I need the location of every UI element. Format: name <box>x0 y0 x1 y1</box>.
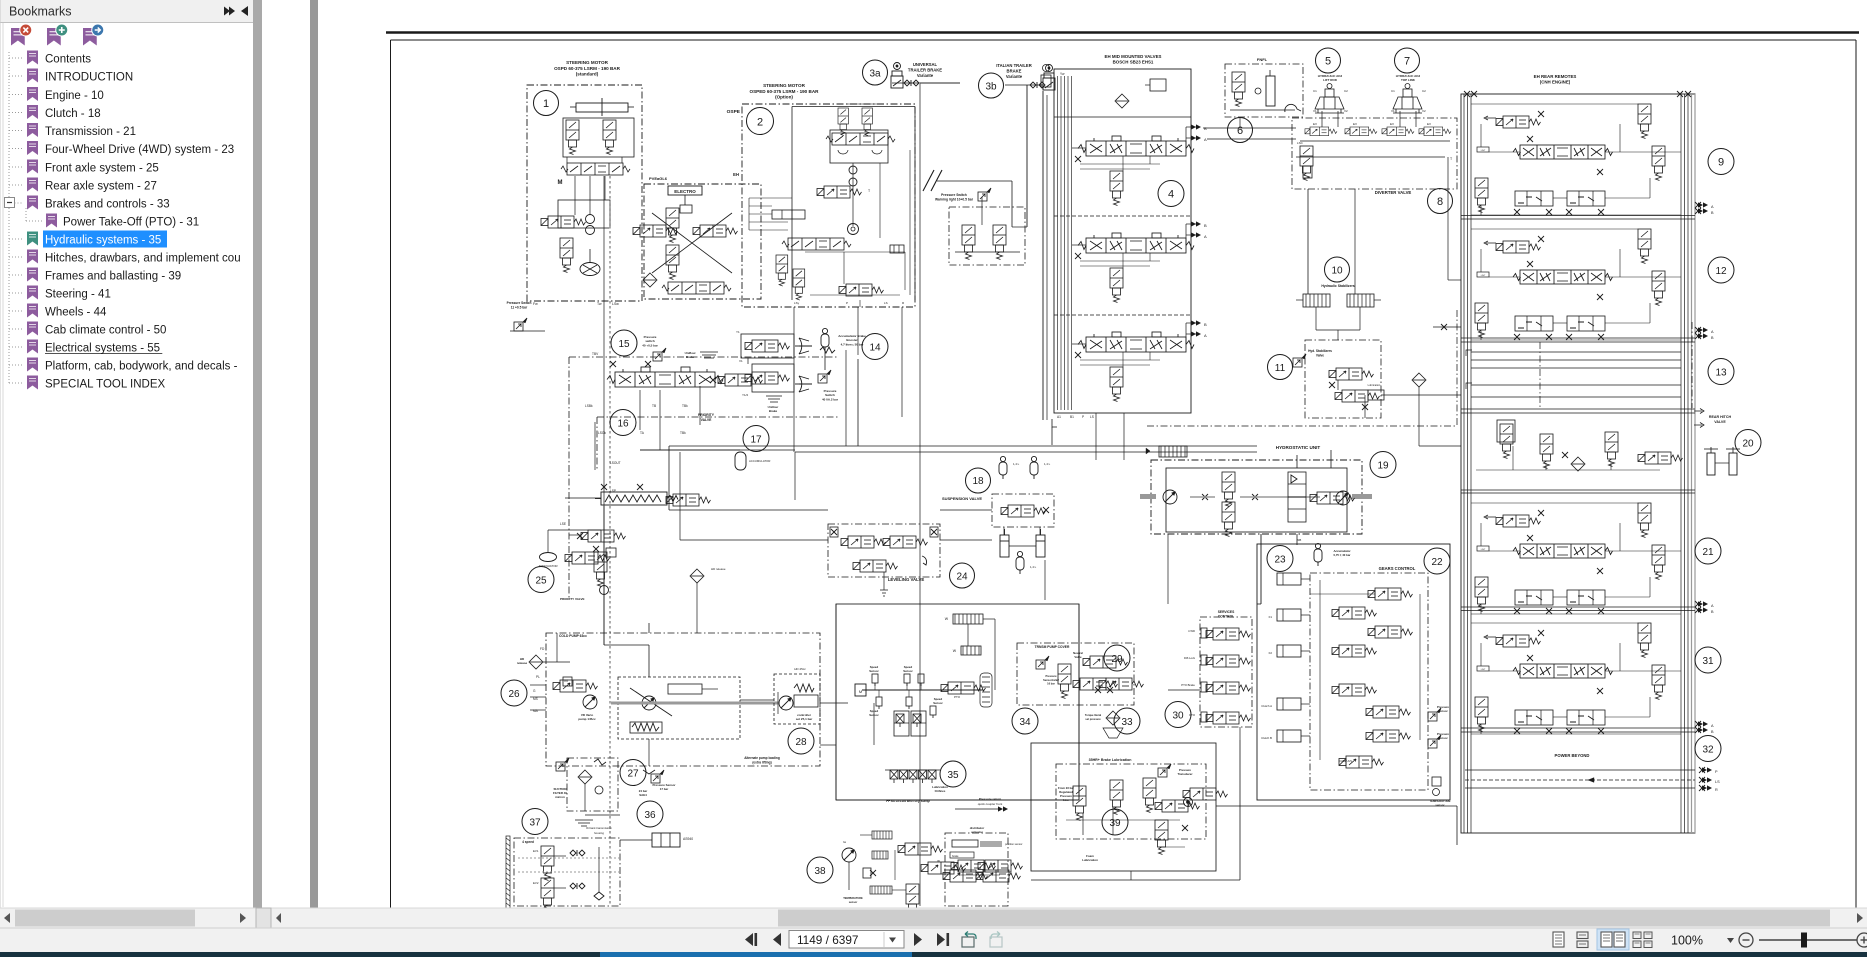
svg-text:MB: MB <box>1297 538 1301 542</box>
svg-text:Sensor: Sensor <box>1438 709 1448 713</box>
svg-text:COLD PUMP 63cc: COLD PUMP 63cc <box>559 634 587 638</box>
svg-text:EH MID MOUNTED VALVES: EH MID MOUNTED VALVES <box>1105 54 1162 59</box>
svg-text:DUMP A/S: DUMP A/S <box>1339 759 1352 763</box>
svg-text:35HR+ Brake Lubrication: 35HR+ Brake Lubrication <box>1089 758 1132 762</box>
svg-text:16 bar: 16 bar <box>1047 682 1055 686</box>
svg-text:SPECIAL TOOL INDEX: SPECIAL TOOL INDEX <box>45 379 165 391</box>
svg-text:A: A <box>1204 234 1207 239</box>
svg-text:Hitches, drawbars, and impleme: Hitches, drawbars, and implement cou <box>45 253 241 265</box>
svg-text:39: 39 <box>1109 818 1121 829</box>
svg-text:EV: EV <box>1353 122 1357 126</box>
svg-text:Sensor: Sensor <box>1438 736 1448 740</box>
svg-text:Pressure: Pressure <box>1045 674 1057 678</box>
svg-text:Yw: Yw <box>1060 72 1065 76</box>
svg-text:DIVERTER VALVE: DIVERTER VALVE <box>1375 190 1412 195</box>
svg-text:F1: F1 <box>1269 615 1273 619</box>
svg-text:Sensor: Sensor <box>903 669 913 673</box>
svg-text:C1: C1 <box>1313 89 1317 93</box>
svg-text:Sensor: Sensor <box>869 669 879 673</box>
svg-text:1,4 L: 1,4 L <box>1044 462 1051 466</box>
svg-text:12: 12 <box>1715 266 1727 277</box>
svg-text:PTO: PTO <box>1189 713 1196 717</box>
svg-text:ACCUMULATOR: ACCUMULATOR <box>749 459 770 463</box>
svg-text:Alternate pump loading: Alternate pump loading <box>744 756 780 760</box>
svg-text:30: 30 <box>1172 711 1184 722</box>
svg-text:V2: V2 <box>1422 109 1426 113</box>
svg-text:LSOk: LSOk <box>598 431 606 435</box>
svg-text:14: 14 <box>869 343 881 354</box>
svg-text:LSOUT: LSOUT <box>610 461 621 465</box>
svg-text:2: 2 <box>757 117 763 129</box>
svg-text:Steering - 41: Steering - 41 <box>45 289 111 301</box>
svg-text:B: B <box>1204 223 1207 228</box>
svg-text:EV2: EV2 <box>533 881 539 885</box>
svg-text:Tw: Tw <box>597 302 602 306</box>
svg-text:A1: A1 <box>1057 415 1061 419</box>
svg-text:EV: EV <box>1427 122 1431 126</box>
svg-text:B1: B1 <box>1070 415 1074 419</box>
svg-text:Sensor: Sensor <box>933 701 943 705</box>
svg-text:Hyd. Stabilizers: Hyd. Stabilizers <box>1308 349 1332 353</box>
svg-text:INTRODUCTION: INTRODUCTION <box>45 72 133 84</box>
svg-text:21: 21 <box>1702 547 1714 558</box>
svg-text:4 WD: 4 WD <box>1188 629 1195 633</box>
svg-text:Variante: Variante <box>917 73 934 78</box>
svg-text:FNFL: FNFL <box>1257 57 1268 62</box>
svg-text:PRIORITY: PRIORITY <box>698 413 715 417</box>
svg-text:38: 38 <box>814 866 826 877</box>
svg-text:Power Take-Off (PTO) - 31: Power Take-Off (PTO) - 31 <box>63 217 199 229</box>
svg-text:HD release: HD release <box>711 567 726 571</box>
svg-text:pump 145cc: pump 145cc <box>578 717 596 721</box>
svg-text:Fw: Fw <box>533 302 538 306</box>
svg-text:F2: F2 <box>1269 651 1273 655</box>
svg-text:LS: LS <box>884 301 888 305</box>
svg-text:Pressure Switch: Pressure Switch <box>507 301 532 305</box>
svg-text:16: 16 <box>617 419 629 430</box>
svg-text:24: 24 <box>956 572 968 583</box>
svg-text:Y1: Y1 <box>736 330 740 334</box>
svg-text:sensor: sensor <box>849 900 858 904</box>
svg-text:Lubrication: Lubrication <box>1082 858 1098 862</box>
svg-text:LIFT ROD: LIFT ROD <box>1323 78 1338 82</box>
svg-text:LIST: LIST <box>1481 669 1486 671</box>
svg-text:13: 13 <box>1715 368 1727 379</box>
svg-text:SAE4: SAE4 <box>639 793 647 797</box>
svg-text:POWER BEYOND: POWER BEYOND <box>1555 753 1590 758</box>
svg-text:EH: EH <box>733 172 739 177</box>
svg-text:LSBk: LSBk <box>585 404 593 408</box>
svg-text:0,75 l; 40 bar: 0,75 l; 40 bar <box>1334 553 1352 557</box>
svg-text:11 +0.5 bar: 11 +0.5 bar <box>511 305 528 309</box>
svg-text:Bookmarks: Bookmarks <box>9 5 72 19</box>
svg-text:Torque literal: Torque literal <box>1085 713 1102 717</box>
svg-text:Cab climate control - 50: Cab climate control - 50 <box>45 325 166 337</box>
svg-text:Wheels - 44: Wheels - 44 <box>45 307 107 319</box>
svg-text:ELECTRO: ELECTRO <box>674 189 696 194</box>
svg-text:P: P <box>846 301 848 305</box>
svg-text:TRNSM PUMP COVER: TRNSM PUMP COVER <box>1035 645 1070 649</box>
svg-text:brake: brake <box>952 854 959 858</box>
svg-text:Transmission - 21: Transmission - 21 <box>45 126 136 138</box>
svg-text:EV: EV <box>1313 122 1317 126</box>
svg-text:LSE: LSE <box>560 522 566 526</box>
svg-text:35: 35 <box>947 770 959 781</box>
svg-text:position sensor: position sensor <box>1005 842 1023 846</box>
svg-text:EH REAR REMOTES: EH REAR REMOTES <box>1534 74 1577 79</box>
svg-text:TBk: TBk <box>682 404 688 408</box>
svg-text:PVEaGL6: PVEaGL6 <box>649 176 668 181</box>
svg-text:Valve: Valve <box>1074 655 1082 659</box>
svg-text:AS940: AS940 <box>683 837 693 841</box>
svg-text:Transducer: Transducer <box>1177 772 1193 776</box>
svg-text:3b: 3b <box>985 82 997 93</box>
svg-text:BRAKE: BRAKE <box>1007 68 1022 73</box>
svg-text:housing: housing <box>594 831 604 835</box>
svg-text:sensor: sensor <box>1435 803 1445 807</box>
svg-text:actuator: actuator <box>971 830 983 834</box>
svg-text:LIST: LIST <box>1481 549 1486 551</box>
svg-text:W: W <box>937 859 940 863</box>
svg-text:Valve: Valve <box>1316 353 1324 357</box>
svg-text:8: 8 <box>1437 196 1443 208</box>
svg-text:HYDROSTATIC UNIT: HYDROSTATIC UNIT <box>1276 445 1321 450</box>
svg-text:quick coupler front: quick coupler front <box>978 802 1003 806</box>
svg-text:TEMPERATURE: TEMPERATURE <box>843 896 863 900</box>
svg-text:Y1/2: Y1/2 <box>742 393 749 397</box>
svg-text:Brakes and controls - 33: Brakes and controls - 33 <box>45 199 170 211</box>
svg-text:PRIORITY VALVE: PRIORITY VALVE <box>560 597 585 601</box>
svg-text:EV1: EV1 <box>533 849 539 853</box>
svg-text:40 0A.2 bar: 40 0A.2 bar <box>822 397 839 401</box>
svg-text:Brake: Brake <box>769 409 778 413</box>
svg-text:UNIVERSAL: UNIVERSAL <box>913 62 938 67</box>
svg-text:REAR HITCH: REAR HITCH <box>1709 415 1732 419</box>
svg-text:A: A <box>1204 333 1207 338</box>
svg-text:C2: C2 <box>1422 89 1426 93</box>
svg-text:26: 26 <box>508 689 520 700</box>
svg-text:TBk: TBk <box>680 431 686 435</box>
svg-text:3a: 3a <box>869 69 881 80</box>
svg-text:1,4 L: 1,4 L <box>1013 462 1020 466</box>
svg-text:SERVICES: SERVICES <box>1218 610 1235 614</box>
svg-text:MS: MS <box>533 697 538 701</box>
svg-text:Sensor: Sensor <box>869 713 879 717</box>
svg-text:TBV: TBV <box>592 352 599 356</box>
svg-text:ATTENUATOR: ATTENUATOR <box>538 564 557 568</box>
svg-text:1,4 L: 1,4 L <box>1030 565 1037 569</box>
svg-text:(Option): (Option) <box>775 95 793 100</box>
svg-text:LIST: LIST <box>1481 275 1486 277</box>
svg-text:release: release <box>517 661 528 665</box>
svg-text:Rear axle system - 27: Rear axle system - 27 <box>45 181 157 193</box>
svg-text:GEARS CONTROL: GEARS CONTROL <box>1379 566 1416 571</box>
svg-text:Sensor/relief: Sensor/relief <box>1043 678 1059 682</box>
svg-text:set pressure: set pressure <box>1085 717 1101 721</box>
svg-text:M: M <box>564 678 567 683</box>
svg-text:Pressure Switch: Pressure Switch <box>941 193 967 197</box>
svg-text:Warning light 10+0.5 bar: Warning light 10+0.5 bar <box>935 198 974 202</box>
svg-text:4: 4 <box>1168 189 1174 201</box>
svg-text:17: 17 <box>750 435 762 446</box>
svg-text:(extra lifting): (extra lifting) <box>752 760 771 764</box>
svg-text:36: 36 <box>644 810 656 821</box>
svg-text:Clutch A: Clutch A <box>1261 704 1272 708</box>
svg-text:Hydraulic systems - 35: Hydraulic systems - 35 <box>45 235 161 247</box>
svg-text:V1: V1 <box>1313 109 1317 113</box>
svg-text:TOP LINK: TOP LINK <box>1401 78 1416 82</box>
svg-text:PTO: PTO <box>954 695 961 699</box>
svg-text:32: 32 <box>1702 745 1714 756</box>
svg-text:M: M <box>558 180 563 186</box>
svg-text:Hydraulic Stabilizers: Hydraulic Stabilizers <box>1321 284 1354 288</box>
svg-text:LSC: LSC <box>1297 141 1304 145</box>
svg-text:FD: FD <box>540 647 545 651</box>
svg-text:PL: PL <box>536 675 540 679</box>
svg-text:EV: EV <box>1390 122 1394 126</box>
svg-text:22: 22 <box>1431 557 1443 568</box>
svg-text:25: 25 <box>535 576 547 587</box>
svg-text:Lubrication: Lubrication <box>1368 383 1381 387</box>
svg-text:V1: V1 <box>1391 109 1395 113</box>
svg-text:100%: 100% <box>1671 934 1703 948</box>
svg-text:OSPE: OSPE <box>727 109 741 115</box>
svg-text:BOSCH SB23 EHS1: BOSCH SB23 EHS1 <box>1113 60 1154 65</box>
svg-text:(CNH ENGINE): (CNH ENGINE) <box>1540 80 1571 85</box>
svg-text:V1: V1 <box>739 359 743 363</box>
svg-text:Clutch B: Clutch B <box>1261 736 1272 740</box>
svg-text:SUSPENSION VALVE: SUSPENSION VALVE <box>942 496 982 501</box>
svg-text:R: R <box>1715 788 1718 792</box>
svg-text:9: 9 <box>1718 157 1724 169</box>
svg-text:(standard): (standard) <box>576 72 599 77</box>
svg-text:1: 1 <box>543 98 549 110</box>
svg-text:37: 37 <box>529 818 541 829</box>
svg-text:micron: micron <box>555 795 565 799</box>
svg-text:1149 / 6397: 1149 / 6397 <box>797 933 858 947</box>
svg-text:10: 10 <box>1331 266 1343 277</box>
svg-text:ITALIAN TRAILER: ITALIAN TRAILER <box>996 63 1032 68</box>
svg-text:Engine - 10: Engine - 10 <box>45 90 104 102</box>
svg-text:23: 23 <box>1274 555 1286 566</box>
svg-text:17 bar: 17 bar <box>660 787 669 791</box>
svg-text:Electrical systems - 55: Electrical systems - 55 <box>45 343 160 355</box>
svg-text:15: 15 <box>618 339 630 350</box>
svg-text:V2: V2 <box>1344 109 1348 113</box>
svg-text:19: 19 <box>1377 461 1389 472</box>
svg-text:Contents: Contents <box>45 54 91 66</box>
svg-text:40 +0,5 bar: 40 +0,5 bar <box>642 343 658 347</box>
svg-text:LSw: LSw <box>612 302 619 306</box>
svg-text:TRAILER BRAKE: TRAILER BRAKE <box>908 67 942 72</box>
svg-text:B: B <box>1204 126 1207 131</box>
svg-text:PTO Brake: PTO Brake <box>1181 683 1195 687</box>
svg-text:4,7 liters; 50 bar: 4,7 liters; 50 bar <box>841 342 865 346</box>
svg-text:LS: LS <box>1715 780 1720 784</box>
svg-text:Clutch - 18: Clutch - 18 <box>45 108 101 120</box>
svg-text:M: M <box>859 689 862 694</box>
svg-text:STEERING MOTOR: STEERING MOTOR <box>566 60 608 65</box>
svg-text:C2: C2 <box>1344 89 1348 93</box>
svg-text:P: P <box>1082 415 1084 419</box>
svg-text:OSPD 60-375 LSRM - 190 BAR: OSPD 60-375 LSRM - 190 BAR <box>554 66 621 71</box>
svg-text:LEVELING VALVE: LEVELING VALVE <box>888 577 925 582</box>
svg-text:Four-Wheel Drive (4WD) system: Four-Wheel Drive (4WD) system - 23 <box>45 144 234 156</box>
svg-text:Diff-Lock: Diff-Lock <box>1184 656 1196 660</box>
svg-text:34: 34 <box>1019 717 1031 728</box>
svg-text:VALVE: VALVE <box>1714 420 1726 424</box>
svg-text:Variante: Variante <box>1006 74 1023 79</box>
svg-text:31: 31 <box>1702 656 1714 667</box>
svg-text:27: 27 <box>627 769 639 780</box>
svg-text:A: A <box>1204 137 1207 142</box>
svg-text:20: 20 <box>1742 439 1754 450</box>
svg-text:OSPED 60-375 LSRM - 190 BAR: OSPED 60-375 LSRM - 190 BAR <box>750 89 820 94</box>
svg-text:18: 18 <box>972 476 984 487</box>
svg-text:VALVE: VALVE <box>701 418 713 422</box>
svg-text:7: 7 <box>1404 56 1410 68</box>
svg-text:5: 5 <box>1325 56 1331 68</box>
svg-text:B: B <box>1204 322 1207 327</box>
svg-text:STEERING MOTOR: STEERING MOTOR <box>763 83 805 88</box>
svg-text:Front axle system - 25: Front axle system - 25 <box>45 163 159 175</box>
svg-text:LSy: LSy <box>794 301 800 305</box>
svg-text:LS: LS <box>1090 415 1094 419</box>
svg-text:4 speed: 4 speed <box>522 840 534 844</box>
svg-text:set 25,1 bar: set 25,1 bar <box>796 717 813 721</box>
svg-text:11: 11 <box>1275 363 1286 374</box>
svg-text:C1: C1 <box>1391 89 1395 93</box>
svg-text:Platform, cab, bodywork, and d: Platform, cab, bodywork, and decals - <box>45 361 238 373</box>
svg-text:Oil tank transmission: Oil tank transmission <box>586 826 612 830</box>
svg-text:CONTROL: CONTROL <box>1218 615 1234 619</box>
svg-text:TB: TB <box>652 404 656 408</box>
svg-text:Orifices: Orifices <box>935 789 946 793</box>
svg-text:LIST: LIST <box>1481 150 1486 152</box>
svg-text:Frames and ballasting - 39: Frames and ballasting - 39 <box>45 271 181 283</box>
svg-text:HD 45cc: HD 45cc <box>794 667 806 671</box>
svg-text:33: 33 <box>1121 717 1133 728</box>
svg-text:28: 28 <box>795 737 807 748</box>
